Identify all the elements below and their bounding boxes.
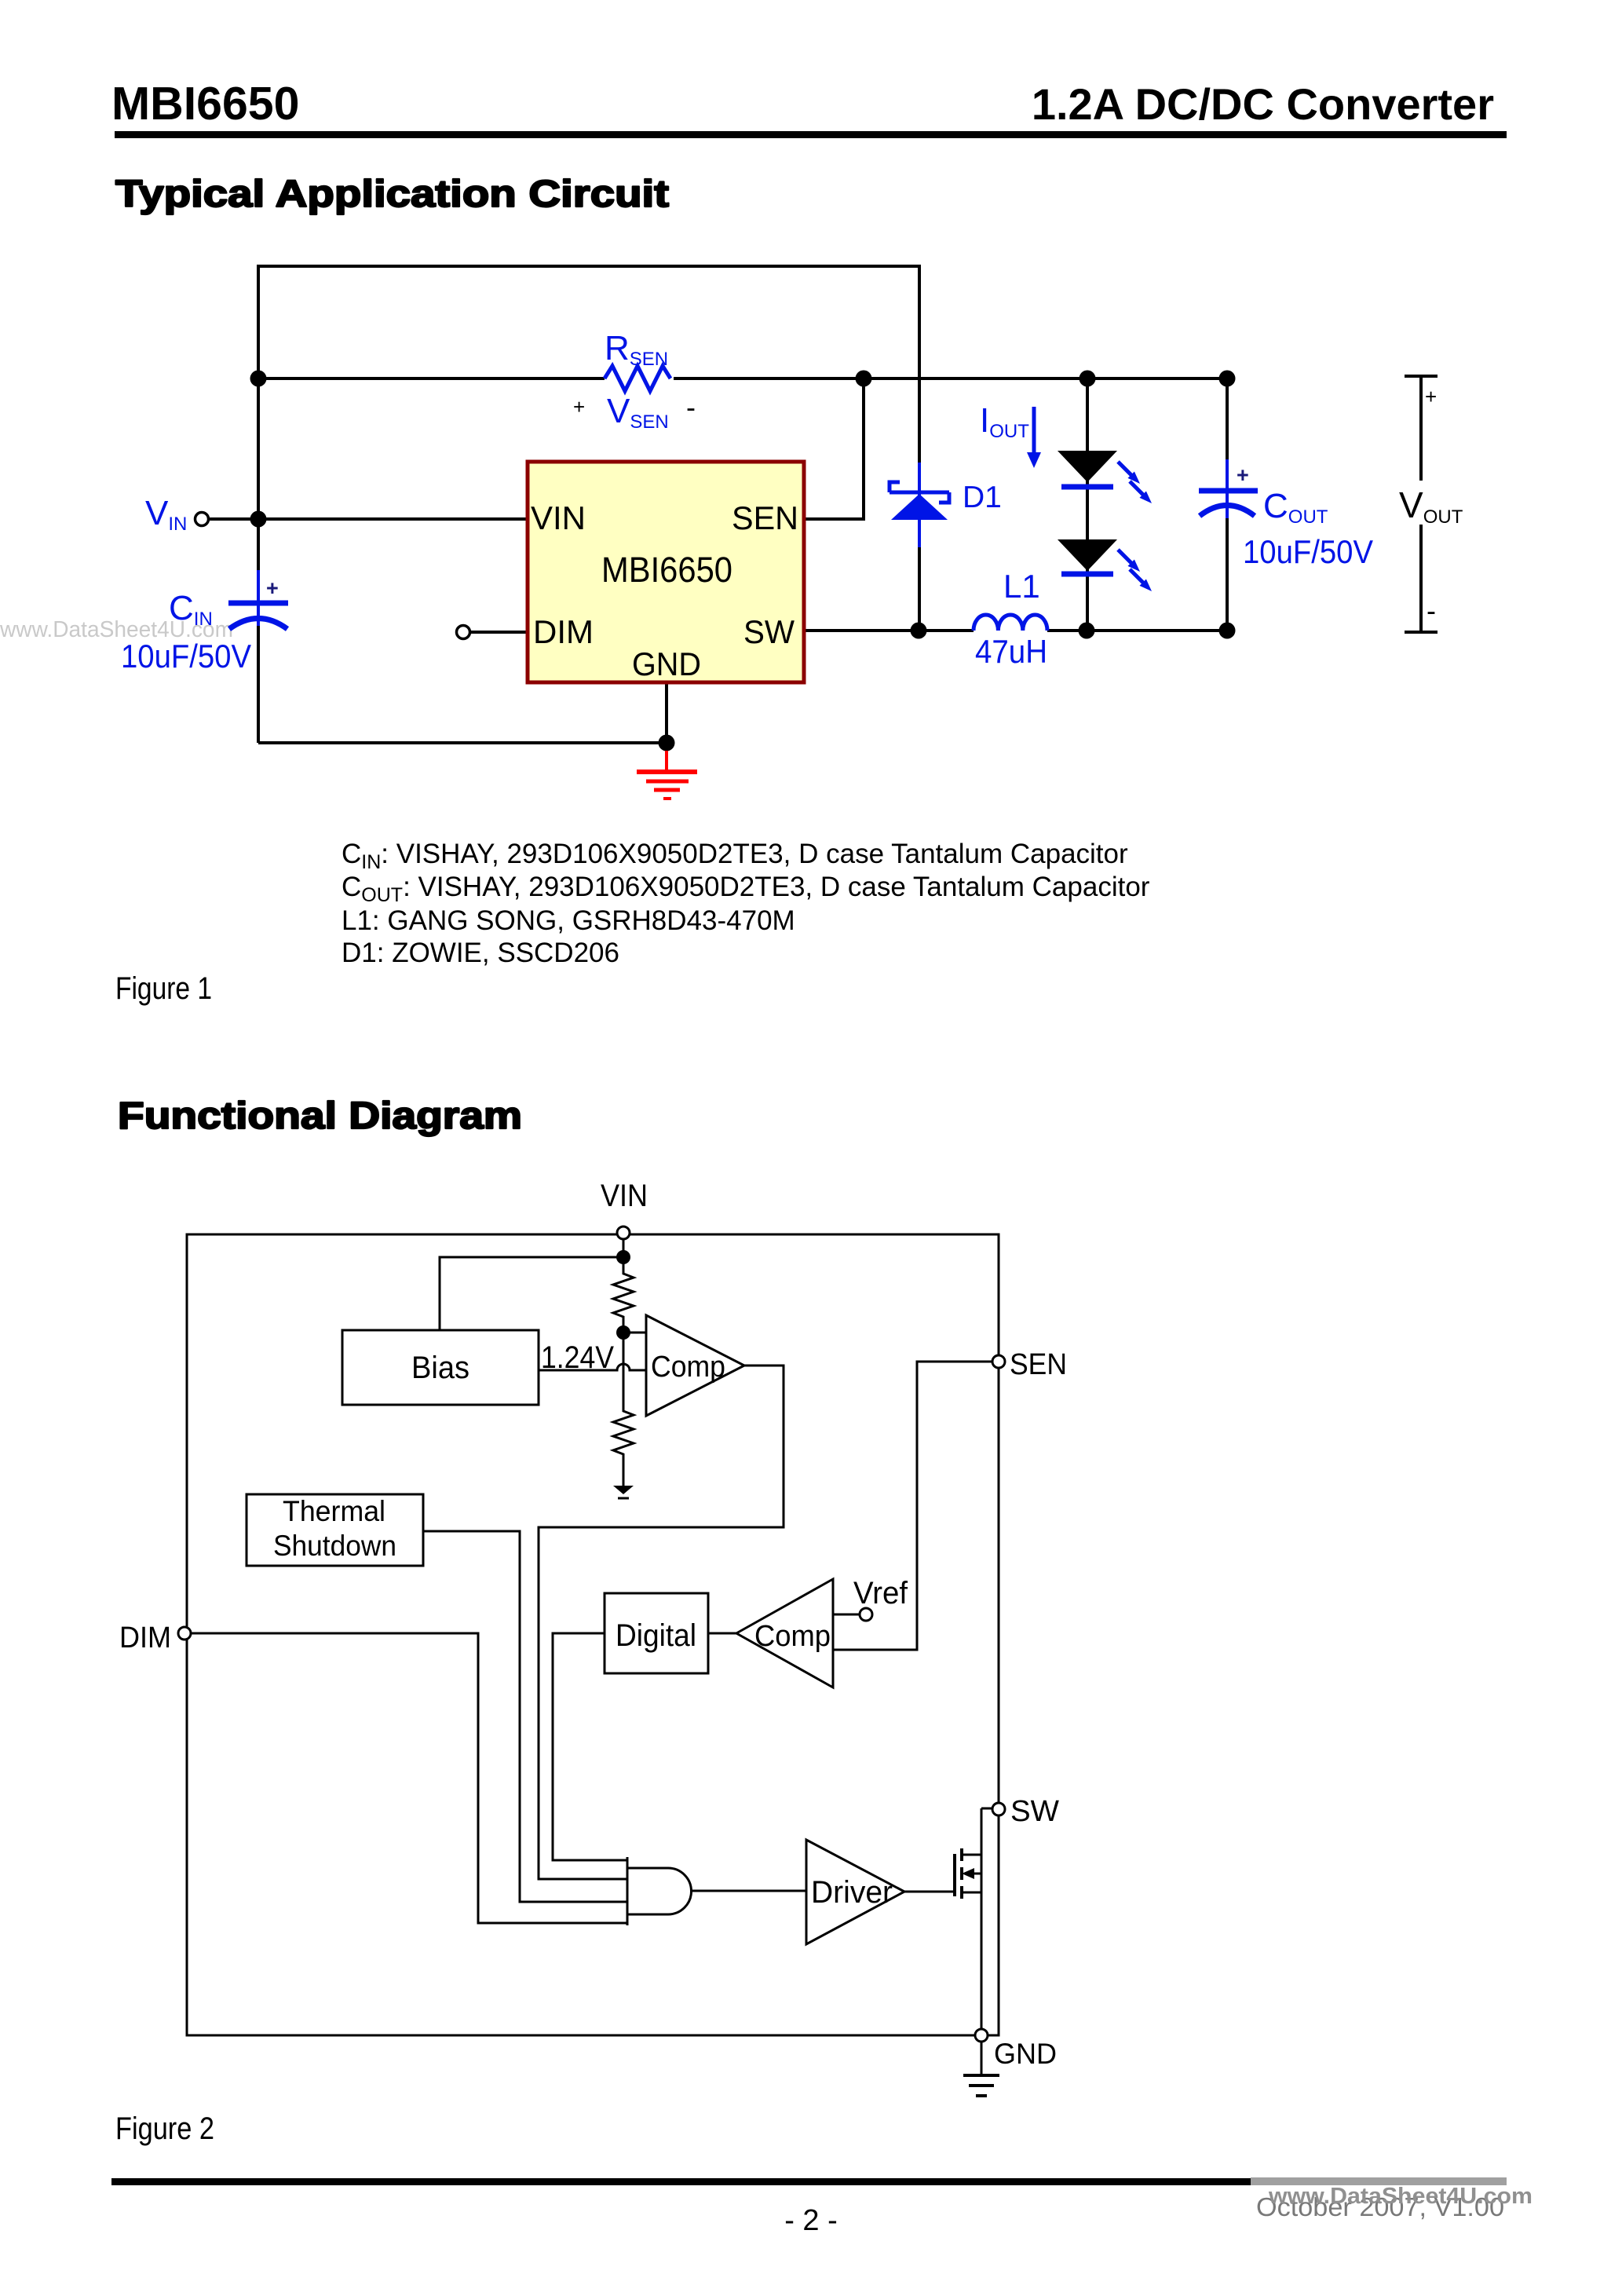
svg-text:MBI6650: MBI6650 [111,78,299,130]
svg-text:-: - [686,391,696,423]
svg-text:10uF/50V: 10uF/50V [121,638,251,675]
svg-text:DIM: DIM [119,1621,171,1654]
svg-text:Thermal: Thermal [283,1495,385,1527]
svg-text:Functional Diagram: Functional Diagram [118,1095,522,1137]
svg-text:VIN: VIN [601,1179,648,1213]
svg-text:+: + [573,395,585,419]
svg-text:L1: L1 [1003,568,1040,605]
svg-text:Bias: Bias [411,1351,469,1385]
svg-text:Figure 1: Figure 1 [115,971,212,1006]
svg-text:GND: GND [994,2038,1057,2070]
svg-text:SEN: SEN [732,499,798,536]
svg-text:+: + [1237,463,1249,487]
svg-text:-: - [1427,594,1436,627]
svg-text:L1: GANG SONG, GSRH8D43-470M: L1: GANG SONG, GSRH8D43-470M [342,905,795,936]
svg-text:Comp: Comp [754,1620,831,1653]
svg-text:GND: GND [632,645,701,682]
svg-text:10uF/50V: 10uF/50V [1243,533,1373,570]
svg-text:MBI6650: MBI6650 [601,550,732,590]
svg-text:SW: SW [1010,1795,1059,1828]
svg-text:CIN: VISHAY, 293D106X9050D2TE3: CIN: VISHAY, 293D106X9050D2TE3, D case T… [342,839,1128,873]
svg-text:D1: ZOWIE, SSCD206: D1: ZOWIE, SSCD206 [342,938,619,968]
svg-text:Digital: Digital [616,1618,696,1653]
svg-text:Figure 2: Figure 2 [115,2111,214,2146]
svg-text:VIN: VIN [531,499,586,536]
svg-text:SEN: SEN [1010,1348,1067,1381]
svg-text:Typical Application Circuit: Typical Application Circuit [115,174,669,215]
svg-text:Shutdown: Shutdown [273,1530,396,1562]
svg-text:1.2A DC/DC Converter: 1.2A DC/DC Converter [1032,79,1494,129]
svg-text:Vref: Vref [853,1576,908,1610]
svg-text:47uH: 47uH [975,633,1047,670]
svg-text:+: + [1425,385,1437,408]
svg-text:- 2 -: - 2 - [784,2204,838,2237]
svg-text:+: + [266,576,279,600]
svg-text:DIM: DIM [533,613,594,650]
svg-text:D1: D1 [963,481,1002,514]
svg-text:www.DataSheet4U.com: www.DataSheet4U.com [1268,2184,1532,2209]
svg-text:COUT: VISHAY, 293D106X9050D2TE: COUT: VISHAY, 293D106X9050D2TE3, D case … [342,872,1150,906]
svg-text:1.24V: 1.24V [541,1340,614,1375]
svg-text:Driver: Driver [811,1875,893,1910]
svg-text:Comp: Comp [651,1351,725,1384]
svg-text:SW: SW [743,613,795,650]
